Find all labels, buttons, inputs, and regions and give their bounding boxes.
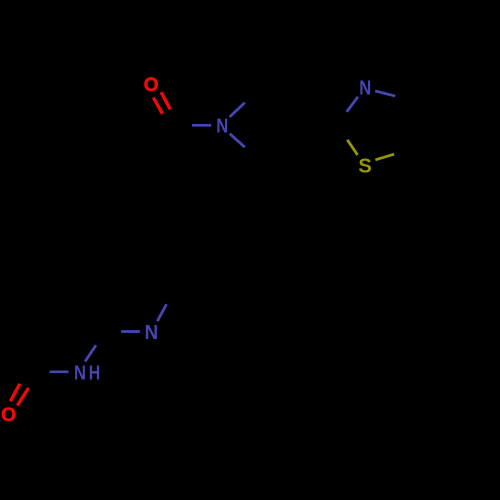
svg-text:N: N bbox=[359, 78, 371, 100]
svg-text:O: O bbox=[1, 404, 16, 426]
svg-text:O: O bbox=[144, 75, 159, 96]
svg-text:N: N bbox=[145, 322, 159, 344]
svg-text:N: N bbox=[216, 116, 228, 138]
svg-text:H: H bbox=[89, 362, 101, 384]
svg-text:S: S bbox=[358, 156, 371, 178]
svg-text:N: N bbox=[74, 362, 86, 384]
